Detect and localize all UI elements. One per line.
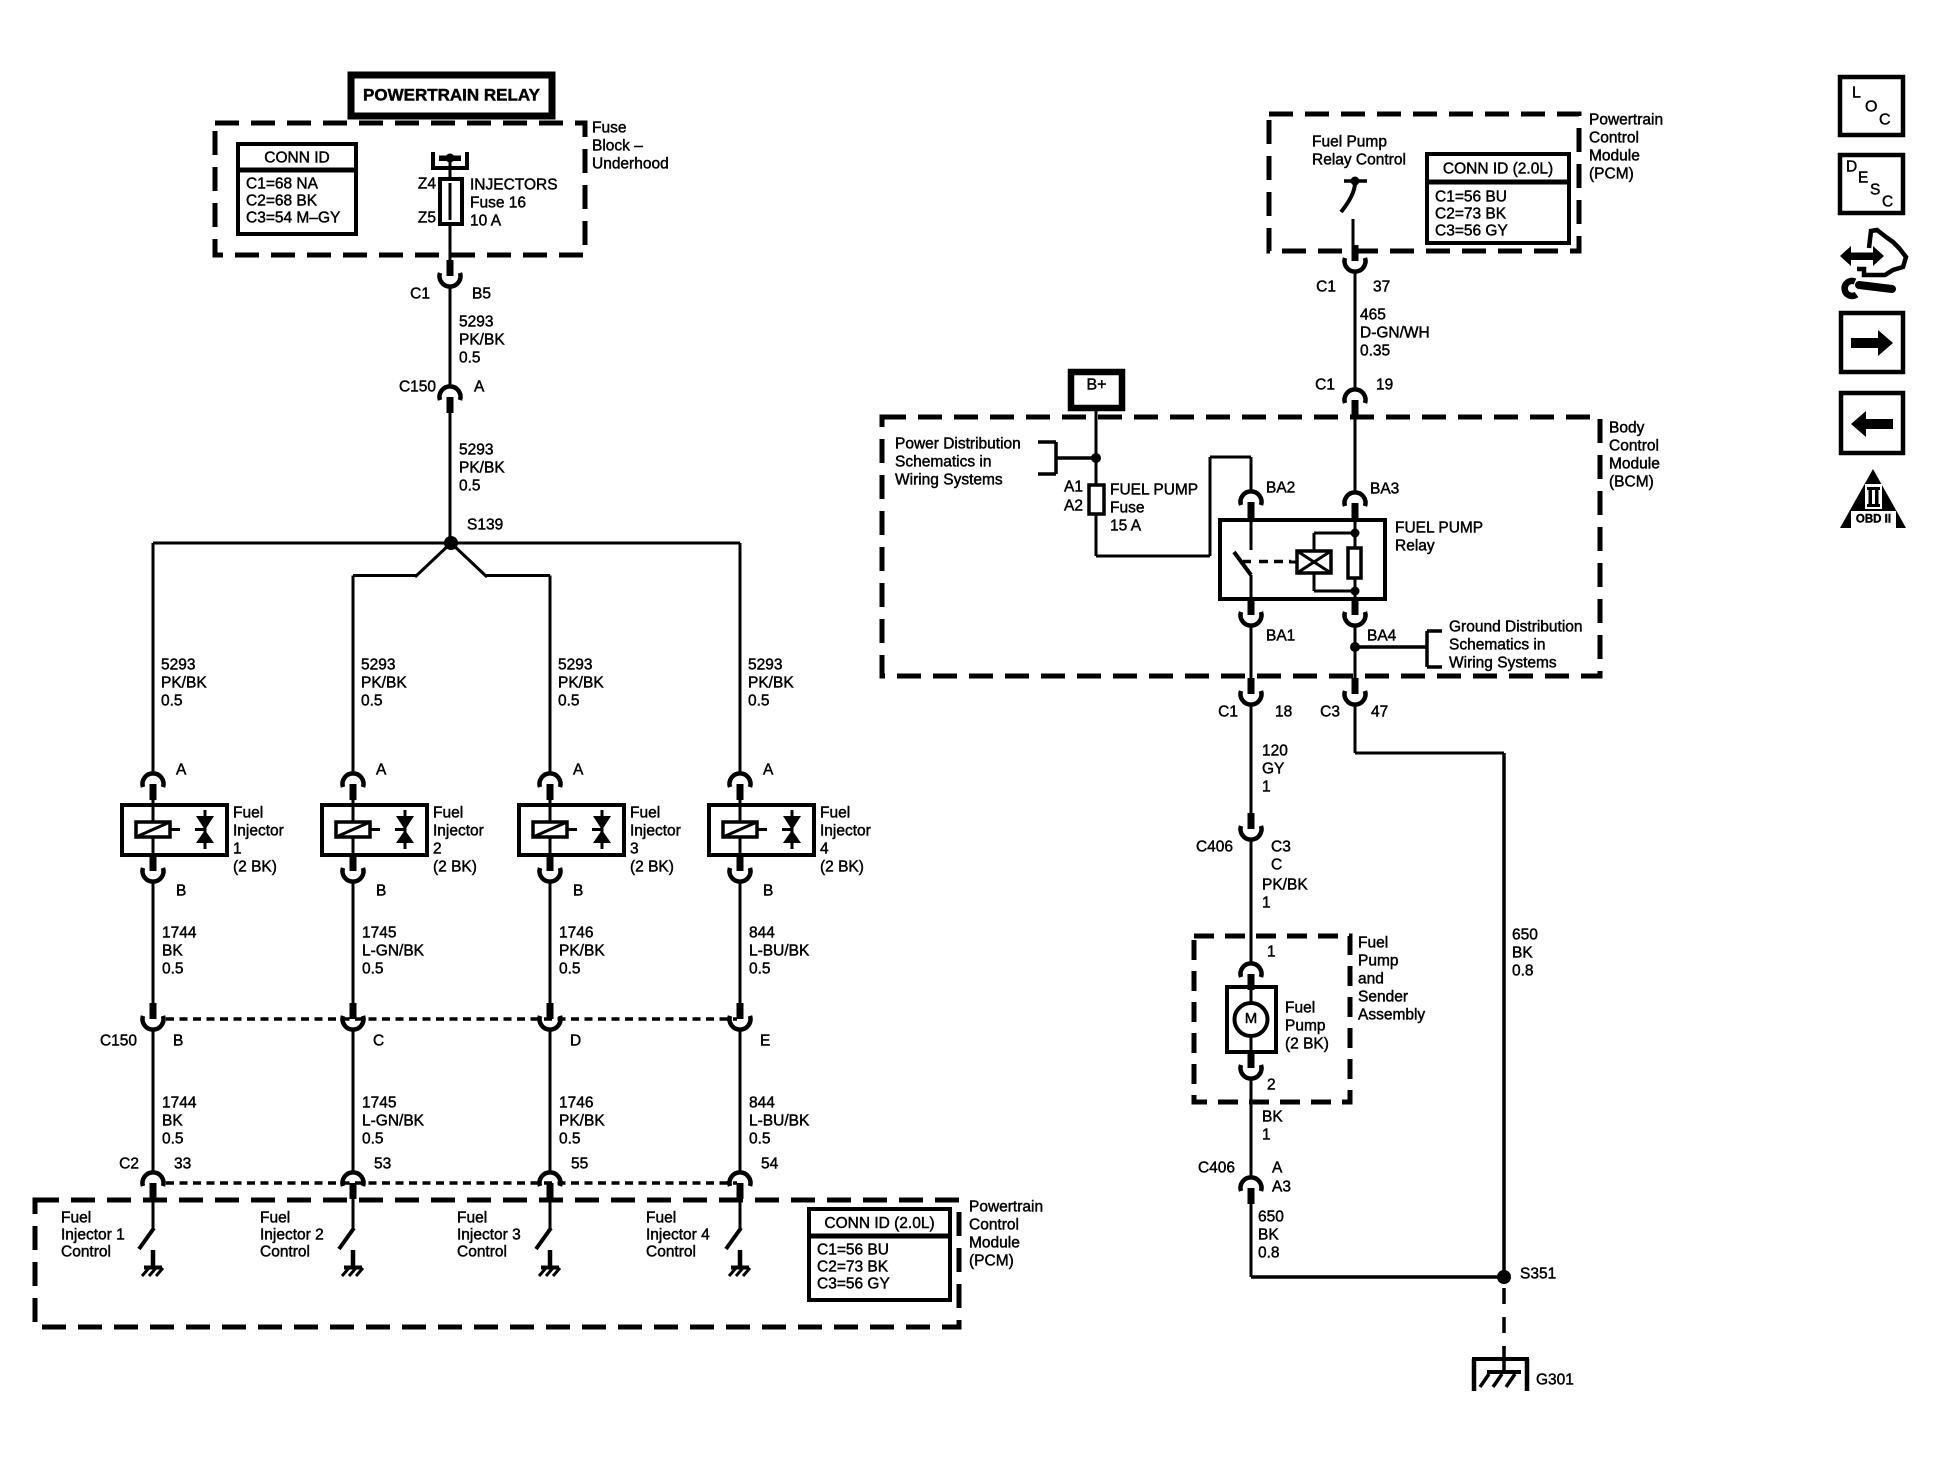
- wire injector 4 control lower: [739, 1030, 742, 1173]
- splice S139: [444, 516, 503, 550]
- svg-text:BK: BK: [1258, 1226, 1279, 1243]
- label BA4: [1367, 627, 1397, 644]
- label C150: [399, 378, 436, 395]
- svg-text:BK: BK: [1262, 1108, 1283, 1125]
- label Powertrain Control Module (PCM) top: [1589, 111, 1663, 182]
- connector injector 3 pin A: [540, 773, 561, 800]
- wire injector 3 control upper: [549, 882, 552, 1004]
- svg-text:0.5: 0.5: [748, 692, 770, 709]
- svg-text:C1: C1: [1316, 278, 1336, 295]
- label C1 (19): [1315, 376, 1335, 393]
- svg-text:53: 53: [374, 1155, 391, 1172]
- wire branch jog left: [353, 574, 416, 577]
- svg-text:C150: C150: [100, 1032, 137, 1049]
- svg-text:C3=54 M–GY: C3=54 M–GY: [246, 209, 340, 226]
- svg-text:B: B: [573, 882, 583, 899]
- wire A3 to S351: [1251, 1204, 1504, 1277]
- svg-text:5293: 5293: [748, 656, 782, 673]
- fuel injector 3 box: [519, 800, 624, 856]
- svg-text:0.5: 0.5: [162, 1130, 184, 1147]
- label Z5: [418, 209, 436, 226]
- driver output fuel pump relay control: [1341, 177, 1367, 247]
- wire injector 4 control upper: [739, 882, 742, 1004]
- svg-text:Fuel: Fuel: [820, 804, 850, 821]
- svg-text:BA1: BA1: [1266, 627, 1295, 644]
- connector C150 pin C: [343, 1003, 364, 1030]
- label G301: [1536, 1371, 1574, 1388]
- svg-text:Assembly: Assembly: [1358, 1006, 1425, 1023]
- connector C150 pin B: [143, 1003, 164, 1030]
- connector C406 pin A-A3: [1241, 1177, 1262, 1204]
- ground lead driver 1: [151, 1250, 156, 1267]
- wire B+ feed: [1095, 410, 1098, 486]
- label wire 1744 branch 1 upper: [162, 924, 197, 977]
- label pin B injector 3: [573, 882, 583, 899]
- svg-text:0.5: 0.5: [459, 477, 481, 494]
- B+ power symbol box: [1071, 372, 1122, 408]
- label Fuel Injector 2 (2 BK): [433, 804, 484, 875]
- connector C150 pin A: [440, 386, 461, 413]
- icon forward arrow box: [1841, 313, 1903, 372]
- label wire 5293 PK/BK 0.5 branch 3: [558, 656, 604, 709]
- fuel pump motor: [1227, 987, 1276, 1053]
- label wire 5293 PK/BK 0.5 (upper): [459, 313, 505, 366]
- dashed box Fuse Block - Underhood: [215, 123, 585, 255]
- svg-text:L-GN/BK: L-GN/BK: [362, 942, 425, 959]
- svg-text:PK/BK: PK/BK: [748, 674, 794, 691]
- label 18: [1275, 703, 1292, 720]
- svg-text:C3=56 GY: C3=56 GY: [1435, 222, 1508, 239]
- relay coil leads: [1314, 529, 1360, 596]
- svg-text:B: B: [173, 1032, 183, 1049]
- svg-text:5293: 5293: [459, 313, 493, 330]
- connector BA3: [1345, 492, 1366, 519]
- node BA4 ground junction: [1350, 642, 1427, 652]
- wire 120 GY: [1250, 705, 1253, 814]
- svg-text:Schematics in: Schematics in: [895, 453, 991, 470]
- connector C150 pin E: [730, 1003, 751, 1030]
- wire 5293 upper: [449, 287, 452, 387]
- label C406 (upper): [1196, 838, 1233, 855]
- svg-text:Fuel: Fuel: [1285, 999, 1315, 1016]
- svg-text:(2 BK): (2 BK): [433, 858, 477, 875]
- label Fuel Injector 3 (2 BK): [630, 804, 681, 875]
- svg-text:B: B: [376, 882, 386, 899]
- svg-text:(2 BK): (2 BK): [233, 858, 277, 875]
- wire branch diagonal left: [415, 543, 451, 577]
- svg-text:CONN ID (2.0L): CONN ID (2.0L): [1443, 161, 1553, 178]
- svg-text:O: O: [1865, 99, 1877, 116]
- svg-text:A1: A1: [1064, 478, 1083, 495]
- connector fuel pump pin 1: [1241, 963, 1262, 990]
- svg-text:Powertrain: Powertrain: [969, 1198, 1043, 1215]
- label A2: [1064, 497, 1083, 514]
- wire into PCM driver 3: [549, 1199, 552, 1229]
- label wire 5293 PK/BK 0.5 branch 2: [361, 656, 407, 709]
- svg-text:Fuel: Fuel: [433, 804, 463, 821]
- wire injector 2 control lower: [352, 1030, 355, 1173]
- label C2 connector row: [119, 1155, 139, 1172]
- svg-text:A: A: [376, 761, 387, 778]
- svg-text:5293: 5293: [161, 656, 195, 673]
- svg-text:Control: Control: [61, 1243, 111, 1260]
- svg-text:4: 4: [820, 840, 829, 857]
- label pin C: [373, 1032, 384, 1049]
- relay actuator dashed link: [1259, 560, 1291, 564]
- svg-text:Pump: Pump: [1358, 952, 1399, 969]
- svg-text:1744: 1744: [162, 1094, 197, 1111]
- label pin A injector 1: [176, 761, 187, 778]
- svg-text:C2: C2: [119, 1155, 139, 1172]
- svg-text:1: 1: [1262, 1126, 1271, 1143]
- svg-text:Wiring Systems: Wiring Systems: [895, 471, 1003, 488]
- svg-text:L-BU/BK: L-BU/BK: [749, 1112, 810, 1129]
- svg-text:B+: B+: [1086, 377, 1106, 394]
- wire injector 3 control lower: [549, 1030, 552, 1173]
- fuse FUEL PUMP 15A: [1089, 485, 1104, 514]
- relay switch: [1234, 520, 1251, 599]
- svg-text:Injector: Injector: [820, 822, 871, 839]
- svg-text:S139: S139: [467, 516, 503, 533]
- svg-text:Control: Control: [1609, 437, 1659, 454]
- wire 5293 lower: [449, 413, 452, 543]
- svg-text:Control: Control: [646, 1243, 696, 1260]
- ground symbol driver 2: [342, 1268, 363, 1277]
- ground lead driver 4: [738, 1250, 743, 1267]
- svg-text:A: A: [763, 761, 774, 778]
- label Fuel Pump (2 BK): [1285, 999, 1329, 1052]
- connector C1 pin 19: [1345, 389, 1366, 416]
- label wire PK/BK 1: [1262, 876, 1308, 911]
- label C3 (47): [1320, 703, 1340, 720]
- ground symbol driver 4: [729, 1268, 750, 1277]
- svg-text:(2 BK): (2 BK): [1285, 1035, 1329, 1052]
- svg-text:C: C: [373, 1032, 384, 1049]
- fuel injector 2 box: [322, 800, 427, 856]
- wire 465: [1354, 272, 1357, 390]
- switch fuel injector 3 driver: [536, 1228, 551, 1249]
- svg-text:A: A: [1272, 1159, 1283, 1176]
- label C1: [410, 285, 430, 302]
- svg-text:Control: Control: [1589, 129, 1639, 146]
- svg-text:Z5: Z5: [418, 209, 436, 226]
- svg-text:Injector 1: Injector 1: [61, 1226, 125, 1243]
- svg-text:L: L: [1852, 85, 1861, 102]
- dashed box Powertrain Control Module top: [1269, 114, 1579, 251]
- svg-text:Injector: Injector: [233, 822, 284, 839]
- label Fuel Injector 2 Control: [260, 1209, 324, 1260]
- connector C406 pin C3-C: [1241, 813, 1262, 840]
- svg-text:D-GN/WH: D-GN/WH: [1360, 324, 1430, 341]
- svg-text:10 A: 10 A: [470, 212, 502, 229]
- connector BA2: [1241, 491, 1262, 518]
- svg-text:Injector 4: Injector 4: [646, 1226, 710, 1243]
- svg-text:650: 650: [1258, 1208, 1284, 1225]
- ground lead driver 2: [351, 1250, 356, 1267]
- label C3 C: [1271, 838, 1291, 873]
- connector C2 pin 33: [143, 1172, 164, 1199]
- label wire 650 BK 0.8 (left): [1258, 1208, 1284, 1261]
- svg-text:Schematics in: Schematics in: [1449, 636, 1545, 653]
- label pin A injector 3: [573, 761, 584, 778]
- svg-text:C1: C1: [1315, 376, 1335, 393]
- label pin 55: [571, 1155, 588, 1172]
- label B5: [472, 285, 491, 302]
- svg-text:1746: 1746: [559, 924, 593, 941]
- svg-text:Pump: Pump: [1285, 1017, 1326, 1034]
- svg-text:47: 47: [1371, 703, 1388, 720]
- svg-text:0.5: 0.5: [362, 1130, 384, 1147]
- svg-text:PK/BK: PK/BK: [459, 459, 505, 476]
- connector C1 pin 18: [1241, 678, 1262, 705]
- svg-text:0.5: 0.5: [559, 960, 581, 977]
- svg-text:Ground Distribution: Ground Distribution: [1449, 618, 1583, 635]
- svg-text:0.5: 0.5: [162, 960, 184, 977]
- wire into PCM driver 1: [152, 1199, 155, 1229]
- dashed connector line C2 row: [166, 1181, 737, 1185]
- svg-text:844: 844: [749, 1094, 775, 1111]
- ground symbol driver 3: [539, 1268, 560, 1277]
- svg-text:120: 120: [1262, 742, 1288, 759]
- table CONN ID (fuse block): [238, 144, 356, 234]
- svg-text:37: 37: [1373, 278, 1390, 295]
- svg-text:18: 18: [1275, 703, 1292, 720]
- svg-text:C1: C1: [410, 285, 430, 302]
- svg-text:1746: 1746: [559, 1094, 593, 1111]
- svg-text:E: E: [760, 1032, 770, 1049]
- svg-text:C: C: [1882, 193, 1893, 210]
- label wire 1745 branch 2 lower: [362, 1094, 425, 1147]
- svg-text:0.5: 0.5: [558, 692, 580, 709]
- svg-text:Injector 2: Injector 2: [260, 1226, 324, 1243]
- wire BA4 to C3-47: [1354, 626, 1357, 679]
- label Fuel Pump Relay Control: [1312, 133, 1406, 168]
- wire injector 2 control upper: [352, 882, 355, 1004]
- svg-text:15 A: 15 A: [1110, 517, 1142, 534]
- ground symbol driver 1: [142, 1268, 163, 1277]
- label A A3: [1272, 1159, 1291, 1195]
- fuel injector 4 box: [709, 800, 814, 856]
- svg-text:S: S: [1870, 181, 1880, 198]
- label wire 5293 PK/BK 0.5 branch 1: [161, 656, 207, 709]
- connector C1 pin B5: [440, 260, 461, 287]
- wire injector 2 feed vertical: [352, 576, 355, 775]
- svg-text:1744: 1744: [162, 924, 197, 941]
- svg-text:Wiring Systems: Wiring Systems: [1449, 654, 1557, 671]
- svg-text:B: B: [176, 882, 186, 899]
- label wire 1745 branch 2 upper: [362, 924, 425, 977]
- label FUEL PUMP Fuse 15 A: [1110, 481, 1198, 534]
- svg-text:2: 2: [1267, 1076, 1276, 1093]
- svg-text:0.8: 0.8: [1512, 962, 1534, 979]
- switch fuel injector 2 driver: [339, 1228, 354, 1249]
- svg-text:C1=56 BU: C1=56 BU: [817, 1241, 889, 1258]
- relay resistor: [1348, 520, 1361, 599]
- svg-text:3: 3: [630, 840, 639, 857]
- svg-text:(BCM): (BCM): [1609, 473, 1654, 490]
- svg-text:Fuel: Fuel: [1358, 934, 1388, 951]
- label pin E: [760, 1032, 770, 1049]
- svg-text:CONN ID: CONN ID: [264, 150, 329, 167]
- svg-text:POWERTRAIN RELAY: POWERTRAIN RELAY: [363, 85, 541, 104]
- svg-text:C2=73 BK: C2=73 BK: [1435, 205, 1507, 222]
- label wire BK 1: [1262, 1108, 1283, 1143]
- label wire 465 D-GN/WH 0.35: [1360, 306, 1430, 359]
- svg-text:CONN ID (2.0L): CONN ID (2.0L): [824, 1215, 934, 1232]
- label wire 5293 PK/BK 0.5 (lower): [459, 441, 505, 494]
- svg-text:M: M: [1245, 1010, 1258, 1027]
- wire injector 1 control lower: [152, 1030, 155, 1173]
- svg-text:C406: C406: [1198, 1159, 1235, 1176]
- svg-text:C: C: [1271, 856, 1282, 873]
- svg-text:C1=68 NA: C1=68 NA: [246, 175, 319, 192]
- label A: [474, 378, 485, 395]
- label INJECTORS Fuse 16 10 A: [470, 176, 558, 229]
- svg-text:C406: C406: [1196, 838, 1233, 855]
- wire branch jog right: [486, 574, 550, 577]
- label S351: [1520, 1265, 1556, 1282]
- svg-text:C2=73 BK: C2=73 BK: [817, 1258, 889, 1275]
- svg-text:Body: Body: [1609, 419, 1645, 436]
- svg-text:Control: Control: [457, 1243, 507, 1260]
- connector C2 pin 54: [730, 1172, 751, 1199]
- svg-text:and: and: [1358, 970, 1384, 987]
- svg-text:Fuel: Fuel: [457, 1209, 487, 1226]
- svg-text:Power Distribution: Power Distribution: [895, 435, 1021, 452]
- power distribution bracket: [1038, 442, 1101, 474]
- svg-text:Fuel: Fuel: [260, 1209, 290, 1226]
- switch fuel injector 1 driver: [139, 1228, 154, 1249]
- table CONN ID 2.0L (PCM bottom): [809, 1209, 950, 1300]
- label Powertrain Control Module (PCM) bottom: [969, 1198, 1043, 1269]
- svg-text:1: 1: [1267, 943, 1276, 960]
- ground G301: [1472, 1346, 1529, 1391]
- wire injector 4 feed vertical: [739, 543, 742, 774]
- svg-text:G301: G301: [1536, 1371, 1574, 1388]
- wire splice bus horizontal: [153, 542, 740, 545]
- wire fuse feed to fuse Z4: [449, 160, 452, 181]
- label FUEL PUMP Relay: [1395, 519, 1483, 554]
- connector fuel pump pin 2: [1241, 1052, 1262, 1079]
- svg-text:1: 1: [1262, 778, 1271, 795]
- connector BA1: [1241, 599, 1262, 626]
- svg-text:INJECTORS: INJECTORS: [470, 176, 558, 193]
- label pin 53: [374, 1155, 391, 1172]
- connector C1 pin 37: [1345, 245, 1366, 272]
- label C150 connector row: [100, 1032, 137, 1049]
- svg-text:Fuel Pump: Fuel Pump: [1312, 133, 1387, 150]
- wire C3-47 to S351: [1355, 705, 1504, 1277]
- label Fuse Block - Underhood: [592, 119, 669, 172]
- wire fuse to relay switch: [1096, 457, 1251, 556]
- label Fuel Injector 3 Control: [457, 1209, 521, 1260]
- svg-text:Z4: Z4: [418, 175, 436, 192]
- label Ground Distribution Schematics in Wiring Systems: [1449, 618, 1583, 671]
- svg-text:0.5: 0.5: [362, 960, 384, 977]
- svg-text:A: A: [176, 761, 187, 778]
- wire injector 1 feed vertical: [152, 543, 155, 774]
- connector injector 1 pin B: [143, 855, 164, 882]
- svg-text:Sender: Sender: [1358, 988, 1408, 1005]
- label Fuel Injector 1 (2 BK): [233, 804, 284, 875]
- label Fuel Pump and Sender Assembly: [1358, 934, 1425, 1023]
- svg-text:0.5: 0.5: [361, 692, 383, 709]
- svg-text:BK: BK: [162, 1112, 183, 1129]
- svg-text:C: C: [1879, 112, 1891, 129]
- label pin 1: [1267, 943, 1276, 960]
- label BA1: [1266, 627, 1295, 644]
- svg-text:Control: Control: [260, 1243, 310, 1260]
- dashed box Body Control Module: [882, 417, 1600, 676]
- svg-text:PK/BK: PK/BK: [1262, 876, 1308, 893]
- svg-text:1745: 1745: [362, 924, 396, 941]
- svg-text:PK/BK: PK/BK: [558, 674, 604, 691]
- label pin B injector 4: [763, 882, 773, 899]
- wire into PCM driver 2: [352, 1199, 355, 1229]
- svg-text:54: 54: [761, 1155, 779, 1172]
- label wire 650 BK 0.8 (right): [1512, 926, 1538, 979]
- connector injector 4 pin A: [730, 773, 751, 800]
- svg-text:B5: B5: [472, 285, 491, 302]
- label pin B: [173, 1032, 183, 1049]
- svg-text:0.5: 0.5: [559, 1130, 581, 1147]
- label pin B injector 1: [176, 882, 186, 899]
- svg-text:Powertrain: Powertrain: [1589, 111, 1663, 128]
- svg-text:B: B: [763, 882, 773, 899]
- dashed box Powertrain Control Module bottom: [35, 1200, 959, 1327]
- svg-text:Fuel: Fuel: [630, 804, 660, 821]
- svg-text:55: 55: [571, 1155, 588, 1172]
- svg-text:0.5: 0.5: [161, 692, 183, 709]
- svg-text:Block –: Block –: [592, 137, 643, 154]
- label BA3: [1370, 480, 1399, 497]
- svg-text:0.5: 0.5: [749, 960, 771, 977]
- label pin D: [570, 1032, 581, 1049]
- svg-text:D: D: [1846, 158, 1857, 175]
- relay coil: [1290, 551, 1331, 573]
- svg-text:Fuse: Fuse: [592, 119, 626, 136]
- svg-text:33: 33: [174, 1155, 191, 1172]
- svg-text:C1=56 BU: C1=56 BU: [1435, 188, 1507, 205]
- table CONN ID 2.0L (PCM top): [1427, 154, 1569, 243]
- svg-text:A: A: [573, 761, 584, 778]
- connector injector 4 pin B: [730, 855, 751, 882]
- svg-text:Underhood: Underhood: [592, 155, 669, 172]
- svg-text:Fuse 16: Fuse 16: [470, 194, 526, 211]
- label Fuel Injector 1 Control: [61, 1209, 125, 1260]
- svg-text:FUEL PUMP: FUEL PUMP: [1110, 481, 1198, 498]
- svg-text:0.35: 0.35: [1360, 342, 1390, 359]
- svg-text:Relay: Relay: [1395, 537, 1435, 554]
- svg-text:S351: S351: [1520, 1265, 1556, 1282]
- svg-text:1745: 1745: [362, 1094, 396, 1111]
- label wire 1746 branch 3 lower: [559, 1094, 605, 1147]
- svg-text:Relay Control: Relay Control: [1312, 151, 1406, 168]
- label Body Control Module (BCM): [1609, 419, 1660, 490]
- svg-text:0.5: 0.5: [459, 349, 481, 366]
- dashed box Fuel Pump and Sender Assembly: [1194, 936, 1350, 1102]
- label wire 1744 branch 1 lower: [162, 1094, 197, 1147]
- svg-text:Module: Module: [1609, 455, 1660, 472]
- dashed connector line C150 row: [166, 1017, 737, 1021]
- svg-text:1: 1: [1262, 894, 1271, 911]
- fuel injector 1 box: [122, 800, 227, 856]
- svg-text:L-GN/BK: L-GN/BK: [362, 1112, 425, 1129]
- svg-text:BK: BK: [162, 942, 183, 959]
- svg-text:(2 BK): (2 BK): [630, 858, 674, 875]
- svg-text:BK: BK: [1512, 944, 1533, 961]
- label C406 (lower): [1198, 1159, 1235, 1176]
